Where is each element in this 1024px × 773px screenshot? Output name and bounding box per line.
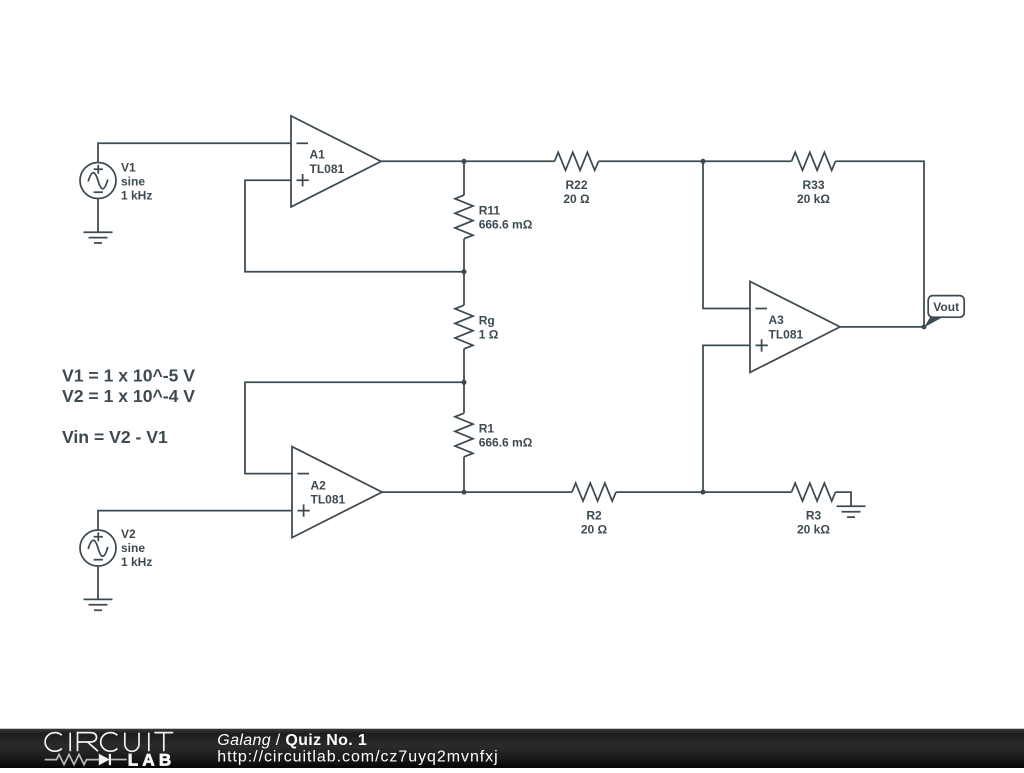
svg-text:R1: R1: [479, 422, 495, 436]
CircuitLab logo CIRCUIT letters: [45, 733, 173, 752]
svg-text:666.6 mΩ: 666.6 mΩ: [479, 436, 533, 450]
svg-text:TL081: TL081: [769, 328, 804, 342]
svg-text:1 kHz: 1 kHz: [121, 188, 152, 202]
wire A1 non-inverting input feedback to node A: [245, 180, 464, 272]
svg-text:V1 = 1 x 10^-5 V: V1 = 1 x 10^-5 V: [62, 365, 195, 385]
node A1 feedback junction: [462, 269, 467, 274]
voltage source V2 sine wave: [88, 540, 108, 556]
svg-text:A1: A1: [310, 148, 326, 162]
op-amp A1 triangle: [291, 116, 381, 207]
voltage source V1 plus marker: [94, 165, 103, 174]
resistor R22 zigzag: [555, 152, 599, 170]
svg-text:20 Ω: 20 Ω: [563, 192, 590, 206]
node A2 feedback junction: [462, 380, 467, 385]
wire A2 inverting input feedback to node B: [245, 382, 464, 473]
resistor R3 zigzag: [792, 483, 836, 501]
svg-text:A3: A3: [769, 313, 785, 327]
wire V1 top to A1 inverting input: [98, 143, 291, 162]
resistor R33 zigzag: [792, 152, 836, 170]
node at R11 top tap: [462, 159, 467, 164]
svg-text:V1: V1: [121, 160, 136, 174]
net flag Vout: [924, 296, 964, 328]
voltage source V1 minus marker: [94, 191, 103, 193]
op-amp A2 inverting input marker: [298, 473, 310, 475]
node at A3 inverting branch top: [701, 159, 706, 164]
voltage source V1 circle: [80, 163, 116, 199]
svg-text:R3: R3: [806, 509, 822, 523]
op-amp A2 triangle: [292, 447, 382, 538]
resistor Rg zigzag: [455, 305, 473, 349]
ground right of R3: [837, 506, 866, 517]
svg-text:LAB: LAB: [128, 750, 176, 768]
resistor R11 zigzag: [455, 195, 473, 239]
voltage source V2 plus marker: [94, 532, 103, 541]
svg-text:1 kHz: 1 kHz: [121, 555, 152, 569]
node A3 non-inverting branch bottom: [701, 490, 706, 495]
svg-text:R2: R2: [586, 509, 602, 523]
svg-text:V2: V2: [121, 527, 136, 541]
op-amp A3 non-inverting input marker: [756, 339, 768, 351]
wire A3 output to Vout node: [840, 326, 924, 328]
voltage source V1 sine wave: [88, 173, 108, 189]
svg-text:V2 = 1 x 10^-4 V: V2 = 1 x 10^-4 V: [62, 386, 195, 406]
voltage source V2 circle: [80, 530, 116, 566]
svg-text:1 Ω: 1 Ω: [479, 328, 499, 342]
op-amp A3 inverting input marker: [756, 308, 768, 310]
wire R11-Rg-R1 vertical chain segments: [463, 161, 465, 492]
svg-text:Galang / Quiz No. 1: Galang / Quiz No. 1: [217, 732, 367, 749]
wire node to A3 inverting input: [703, 161, 750, 308]
svg-text:R11: R11: [479, 204, 501, 218]
svg-text:http://circuitlab.com/cz7uyq2m: http://circuitlab.com/cz7uyq2mvnfxj: [217, 749, 498, 766]
op-amp A2 non-inverting input marker: [298, 504, 310, 516]
node R1 bottom tap: [462, 490, 467, 495]
CircuitLab logo resistor-diode squiggle: [45, 754, 127, 764]
resistor R1 zigzag: [455, 413, 473, 457]
voltage source V2 minus marker: [94, 559, 103, 561]
svg-text:20 kΩ: 20 kΩ: [797, 523, 830, 537]
svg-text:R33: R33: [802, 178, 824, 192]
svg-text:20 Ω: 20 Ω: [581, 523, 608, 537]
svg-text:Vin = V2 - V1: Vin = V2 - V1: [62, 427, 168, 447]
node Vout: [922, 324, 927, 329]
ground below V2: [84, 566, 113, 610]
ground below V1: [84, 199, 113, 244]
op-amp A3 triangle: [750, 281, 840, 372]
op-amp A1 non-inverting input marker: [297, 174, 309, 186]
resistor R2 zigzag: [572, 483, 616, 501]
svg-text:20 kΩ: 20 kΩ: [797, 192, 830, 206]
svg-text:TL081: TL081: [311, 493, 346, 507]
svg-text:Rg: Rg: [479, 314, 495, 328]
op-amp A1 inverting input marker: [297, 142, 309, 144]
wire node to A3 non-inverting input: [703, 345, 750, 492]
svg-text:Vout: Vout: [933, 300, 959, 314]
svg-text:sine: sine: [121, 541, 145, 555]
annotation text block: [62, 365, 195, 447]
svg-text:666.6 mΩ: 666.6 mΩ: [479, 218, 533, 232]
svg-text:sine: sine: [121, 174, 145, 188]
footer bar: [0, 729, 1024, 770]
svg-text:TL081: TL081: [310, 162, 345, 176]
svg-text:A2: A2: [311, 478, 327, 492]
wire A1 output rail with corner down to Vout node: [381, 161, 924, 327]
svg-text:R22: R22: [565, 178, 587, 192]
wire V2 top to A2 non-inverting input: [98, 511, 292, 530]
wire A2 output rail to R3 ground: [382, 492, 851, 506]
CircuitLab logo diode: [99, 754, 110, 766]
